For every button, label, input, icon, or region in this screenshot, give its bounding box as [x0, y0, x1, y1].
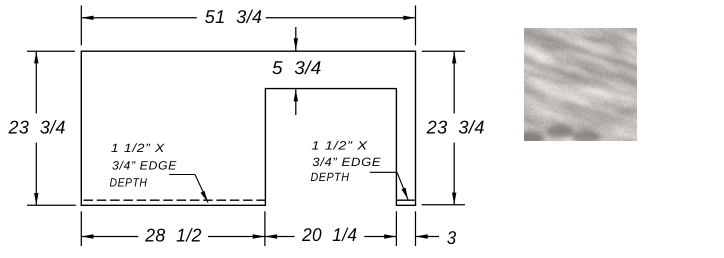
dimension 51 3/4 dimension line with arrows [81, 16, 415, 20]
svg-text:23 3/4: 23 3/4 [426, 117, 485, 138]
svg-text:20 1/4: 20 1/4 [301, 224, 357, 245]
dimension 23 3/4 left: dimension line with arrows [34, 51, 38, 205]
svg-text:3/4” EDGE: 3/4” EDGE [112, 159, 177, 173]
dimension 51 3/4 extension line right [415, 6, 417, 46]
note left: 1 1/2" X 3/4" EDGE DEPTH [110, 141, 178, 189]
dimension 51 3/4 extension line left [80, 6, 82, 46]
dimension 3 line with outside arrow [416, 234, 440, 238]
dimension 23 3/4 right: dimension line with arrows [452, 51, 456, 205]
dimension 28 1/2 dimension line with arrows [81, 234, 265, 238]
bottom extension line at notch right [395, 211, 397, 246]
note right: 1 1/2" X 3/4" EDGE DEPTH [311, 139, 382, 185]
svg-text:DEPTH: DEPTH [110, 175, 148, 189]
bottom extension line at right edge [415, 211, 417, 246]
svg-text:1 1/2” X: 1 1/2” X [311, 139, 368, 153]
dimension 23 3/4 right: extension line bottom [422, 204, 465, 206]
dimension 23 3/4 left: extension line top [27, 50, 75, 52]
edge depth dashed line (left section) [84, 199, 266, 201]
edge depth line (right strip) [396, 199, 414, 201]
countertop outline [81, 51, 415, 205]
svg-text:28 1/2: 28 1/2 [144, 225, 202, 246]
granite material swatch [441, 0, 724, 230]
note right leader with arrow [370, 172, 408, 199]
dimension 20 1/4 dimension line with arrows [265, 234, 397, 238]
svg-text:DEPTH: DEPTH [311, 170, 350, 184]
dimension 5 3/4 lower arrow (points up to notch top) [294, 89, 298, 115]
bottom extension line at notch left [264, 211, 266, 246]
svg-text:51 3/4: 51 3/4 [205, 6, 263, 27]
note left leader with arrow [169, 175, 208, 203]
svg-text:5 3/4: 5 3/4 [272, 57, 322, 78]
svg-text:1 1/2” X: 1 1/2” X [111, 141, 166, 155]
dimension 23 3/4 right: extension line top [422, 50, 465, 52]
svg-text:3/4” EDGE: 3/4” EDGE [312, 155, 381, 169]
dimension 23 3/4 left: extension line bottom [27, 204, 76, 206]
svg-text:3: 3 [447, 227, 457, 248]
dimension 5 3/4 upper arrow (points down to top edge) [294, 27, 298, 51]
svg-text:23 3/4: 23 3/4 [8, 117, 66, 138]
bottom extension line at left edge [80, 211, 82, 246]
